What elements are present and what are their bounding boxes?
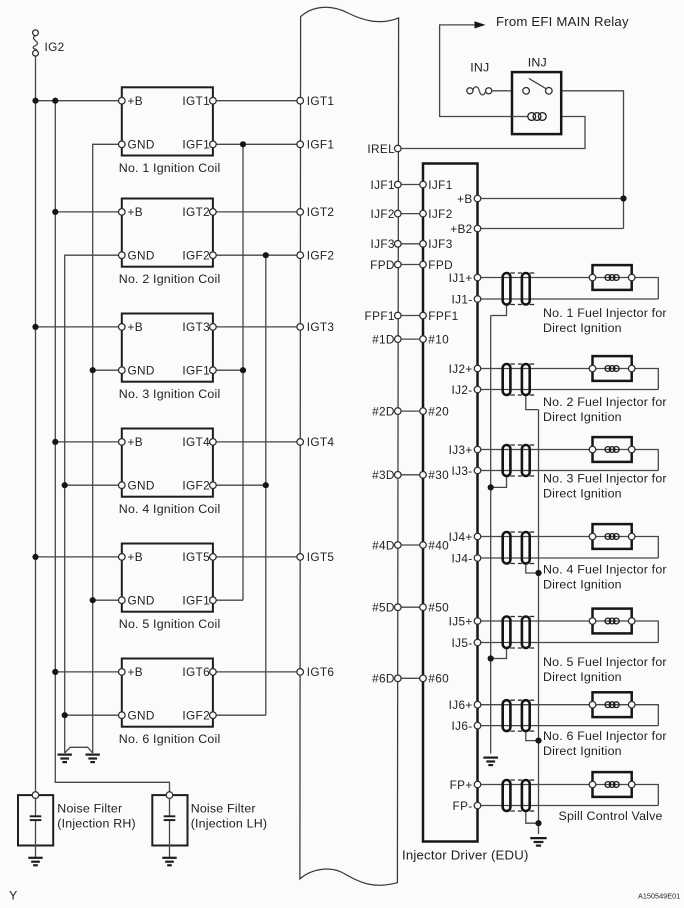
wire IGF2 from No.2 coil [213,254,300,256]
shield stadium left ch3 [503,445,511,476]
shield stadium right ch6 [522,700,530,731]
pin IGF2 coil 6 [210,712,217,719]
svg-text:IJ5-: IJ5- [452,636,473,650]
noise filter (RH) internal wire [35,798,37,816]
shield drain ch2 [526,395,539,410]
pin IJ6+ on EDU [474,701,481,708]
junction IGF2/coil2 [263,252,269,258]
svg-text:No. 1 Ignition Coil: No. 1 Ignition Coil [119,161,221,175]
svg-text:No. 2 Fuel Injector for: No. 2 Fuel Injector for [543,395,667,409]
wire GND bus coils 2/4/6 [65,255,122,753]
svg-text:Noise Filter: Noise Filter [57,802,122,816]
ignition coil box No.6 [122,659,213,727]
pin +B2 on EDU [474,225,481,232]
svg-text:IGT5: IGT5 [307,550,335,564]
svg-text:GND: GND [128,594,155,608]
ground shield drain left [483,758,498,766]
svg-text:IJ2-: IJ2- [452,383,473,397]
ground for coils (left) [58,755,72,763]
wire injector out loop [632,278,659,300]
label No. 1 Fuel Injector for Direct Ignition [543,306,667,335]
junction drain ch4 [535,570,541,576]
shield stadium right ch5 [522,617,530,649]
svg-text:+B: +B [457,192,472,206]
wire +B feed vertical 2 [55,101,169,795]
ground shield drain right [530,838,546,846]
svg-text:IGT4: IGT4 [307,435,335,449]
svg-text:IG2: IG2 [45,40,65,54]
svg-text:Direct Ignition: Direct Ignition [543,410,622,424]
svg-text:+B: +B [128,94,143,108]
svg-text:#20: #20 [428,404,449,418]
svg-text:IREL: IREL [367,142,395,156]
wire GND branch coil 4 [65,484,122,486]
wire relay switch to +B bus [549,91,624,229]
svg-text:#40: #40 [428,538,449,552]
pin +B coil 4 [119,439,126,446]
pin GND coil 4 [119,482,126,489]
pin #20 on EDU [420,408,427,415]
ground noise filter (RH) [28,858,42,866]
junction +B / relay bus [620,195,626,201]
ignition coil box No.5 [122,544,213,612]
node IREL on ECM band [395,145,402,152]
pin IJ3- on EDU [474,467,481,474]
pin IGT5 coil [210,554,217,561]
svg-text:#2D: #2D [372,404,395,418]
svg-text:FPF1: FPF1 [365,309,395,323]
svg-text:IJF1: IJF1 [370,178,394,192]
svg-text:No. 4 Fuel Injector for: No. 4 Fuel Injector for [543,562,667,576]
shield dashes ch2 [510,364,534,395]
svg-text:Y: Y [9,889,17,903]
svg-text:+B: +B [128,665,143,679]
wire +B feed to No.2 coil [55,211,122,213]
pin IJ1+ on EDU [474,274,481,281]
wire injector out loop [632,450,659,471]
svg-text:IGT6: IGT6 [307,665,335,679]
connector IG2 symbol [33,30,39,56]
svg-text:GND: GND [128,364,155,378]
pin IGT3 coil [210,324,217,331]
pin +B coil 5 [119,554,126,561]
svg-text:+B: +B [128,550,143,564]
junction feed/coil1 a [32,98,38,104]
pin IJF3 on EDU [420,241,427,248]
ECM harness band (vertical bus) [300,7,399,885]
wire IGT3 to ECM [213,326,300,328]
wire IJ2- return [478,389,659,391]
svg-text:#10: #10 [428,332,449,346]
svg-text:IJ4-: IJ4- [452,551,473,565]
pin FPF1 on EDU [420,312,427,319]
shield dashes ch3 [510,445,534,476]
shield stadium left ch4 [503,532,511,564]
svg-text:#30: #30 [428,468,449,482]
wire #3D band to EDU [398,474,423,476]
load terminals ch5 [589,618,635,625]
svg-text:IGT1: IGT1 [182,94,210,108]
coil in load ch3 [605,447,619,453]
pin GND coil 2 [119,252,126,259]
wire IGT4 to ECM [213,441,300,443]
pin FP+ on EDU [474,781,481,788]
junction drain ch7 [535,820,541,826]
wire IJ1- return [478,298,659,300]
svg-text:IGT2: IGT2 [182,205,210,219]
pin #10 on EDU [420,336,427,343]
svg-text:No. 6 Fuel Injector for: No. 6 Fuel Injector for [543,729,667,743]
svg-text:FPF1: FPF1 [428,309,458,323]
wire fuse to relay switch [492,90,526,92]
wire IGF1 from No.5 coil [213,599,243,601]
wire injector out loop [632,537,659,559]
wire #4D band to EDU [398,544,423,546]
svg-text:Direct Ignition: Direct Ignition [543,744,622,758]
node FPF1 on ECM band [395,312,402,319]
pin IJ4- on EDU [474,555,481,562]
load box ch7 [593,772,632,797]
svg-text:IGF2: IGF2 [182,479,210,493]
pin #40 on EDU [420,542,427,549]
wire relay coil to IREL [398,117,585,149]
wire IGF2 from No.6 coil [213,714,266,716]
wire From EFI MAIN Relay with arrow [440,21,512,116]
svg-text:+B: +B [128,320,143,334]
svg-text:IJF3: IJF3 [370,237,394,251]
wire FP+ to injector [478,784,593,786]
svg-text:IJ3+: IJ3+ [449,443,473,457]
pin IJ2+ on EDU [474,365,481,372]
pin IJ2- on EDU [474,386,481,393]
svg-text:IGF2: IGF2 [182,709,210,723]
svg-text:No. 2 Ignition Coil: No. 2 Ignition Coil [119,272,221,286]
pin IJ6- on EDU [474,722,481,729]
svg-text:Noise Filter: Noise Filter [191,802,256,816]
wire IJF2 band to EDU [398,213,423,215]
pin IJ4+ on EDU [474,533,481,540]
svg-text:IGF1: IGF1 [182,138,210,152]
shield stadium right ch4 [522,532,530,564]
shield stadium left ch5 [503,617,511,649]
wire shield drain bus right [538,410,540,834]
wire IJ5+ to injector [478,620,593,622]
svg-text:+B2: +B2 [450,222,472,236]
load lead ch3 [593,449,632,451]
wire GND branch coil 6 [65,714,122,716]
load terminals ch3 [589,446,635,453]
wire IJ4- return [478,557,659,559]
shield drain ch1 [491,305,507,316]
load box ch3 [593,437,632,462]
svg-text:GND: GND [128,479,155,493]
wire FPD band to EDU [398,264,423,266]
node IGT5 on ECM band [297,554,304,561]
capacitor in noise filter (RH) [30,816,42,820]
wire #5D band to EDU [398,606,423,608]
pin GND coil 1 [119,141,126,148]
label No. 6 Fuel Injector for Direct Ignition [543,729,667,758]
svg-text:IGT3: IGT3 [307,320,335,334]
svg-text:Spill Control Valve: Spill Control Valve [559,809,663,823]
shield stadium left ch7 [503,780,511,811]
pin IJF1 on EDU [420,181,427,188]
svg-text:Direct Ignition: Direct Ignition [543,670,622,684]
wire GND bus coils 1/3/5 [93,144,122,753]
pin #50 on EDU [420,604,427,611]
svg-text:IGF2: IGF2 [307,249,335,263]
svg-text:No. 5 Fuel Injector for: No. 5 Fuel Injector for [543,655,667,669]
wire IJ5- return [478,642,659,644]
label Noise Filter RH [57,802,136,831]
shield stadium left ch6 [503,700,511,731]
load box ch5 [593,609,632,634]
shield dashes ch1 [510,273,534,305]
label No. 2 Fuel Injector for Direct Ignition [543,395,667,424]
wire +B to relay bus [478,198,624,200]
node IGT1 on ECM band [297,97,304,104]
load lead ch7 [593,784,632,786]
junction feed/coil6 [52,669,58,675]
wire FP- return [478,805,659,807]
pin IGT6 coil [210,669,217,676]
shield drain ch3 [491,476,507,487]
load box ch1 [593,265,632,290]
pin FP- on EDU [474,802,481,809]
wire IGF2 bus vertical [265,255,267,715]
coil in load ch5 [605,618,619,624]
pin IGF1 coil 3 [210,367,217,374]
wire +B2 to relay bus [478,228,624,230]
shield dashes ch5 [510,617,534,649]
wire IJ4+ to injector [478,536,593,538]
shield stadium right ch7 [522,780,530,811]
svg-text:#4D: #4D [372,538,395,552]
capacitor in noise filter (LH) [164,816,176,820]
pin +B on EDU [474,195,481,202]
svg-text:Injector Driver (EDU): Injector Driver (EDU) [402,847,529,862]
svg-text:GND: GND [128,709,155,723]
label Noise Filter LH [191,802,267,831]
shield stadium left ch1 [503,273,511,305]
wire +B feed to No.5 coil [36,556,122,558]
pin +B coil 6 [119,669,126,676]
svg-text:IJF2: IJF2 [370,207,394,221]
pin FPD on EDU [420,261,427,268]
junction GND/coil5 [90,597,96,603]
shield dashes ch7 [510,780,534,811]
junction GND/coil4 [62,482,68,488]
load terminals ch4 [589,533,635,540]
noise filter (LH) internal wire [169,798,171,816]
relay coil [512,116,528,118]
load terminals ch7 [589,781,635,788]
node IGF1 on ECM band [297,141,304,148]
node #3D on ECM band [395,472,402,479]
coil in load ch2 [605,366,619,372]
node #6D on ECM band [395,675,402,682]
svg-text:Direct Ignition: Direct Ignition [543,577,622,591]
junction GND/coil3 [90,367,96,373]
ignition coil box No.2 [122,199,213,267]
wire IGT2 to ECM [213,211,300,213]
wire injector out loop [632,621,659,643]
wire ground bridge [65,747,93,753]
pin IGF1 coil 1 [210,141,217,148]
wire IG2 feed vertical [35,56,37,795]
node #1D on ECM band [395,336,402,343]
pin #60 on EDU [420,675,427,682]
svg-text:#1D: #1D [372,332,395,346]
svg-text:#60: #60 [428,672,449,686]
wire IGT6 to ECM [213,671,300,673]
shield dashes ch6 [510,700,534,731]
svg-text:(Injection RH): (Injection RH) [57,816,136,830]
pin GND coil 5 [119,597,126,604]
svg-text:Direct Ignition: Direct Ignition [543,486,622,500]
junction IGF2/coil4 [263,482,269,488]
pin IJF2 on EDU [420,210,427,217]
wire IGF1 bus vertical [242,144,244,600]
svg-text:No. 1 Fuel Injector for: No. 1 Fuel Injector for [543,306,667,320]
svg-text:IJF2: IJF2 [428,207,452,221]
svg-text:FPD: FPD [370,258,395,272]
svg-text:INJ: INJ [470,60,489,74]
svg-text:#3D: #3D [372,468,395,482]
junction drain ch3 [488,484,494,490]
ground for coils (right) [86,755,100,763]
shield drain ch6 [526,731,539,741]
shield stadium right ch1 [522,273,530,305]
ignition coil box No.4 [122,429,213,497]
coil in load ch1 [605,275,619,281]
svg-text:IJ5+: IJ5+ [449,614,473,628]
relay switch contacts [523,78,552,94]
shield drain ch5 [491,648,507,659]
shield stadium left ch2 [503,364,511,395]
wire IJ6+ to injector [478,704,593,706]
pin IGF2 coil 4 [210,482,217,489]
svg-text:IGF1: IGF1 [182,364,210,378]
node IGT4 on ECM band [297,439,304,446]
wire FPF1 band to EDU [398,315,423,317]
Injector Driver EDU box [423,164,478,842]
svg-text:IGF1: IGF1 [182,594,210,608]
wire injector out loop [632,705,659,726]
load box ch2 [593,356,632,381]
wire IGF2 from No.4 coil [213,484,266,486]
shield stadium right ch2 [522,364,530,395]
wire IGT1 to ECM [213,100,300,102]
junction feed/coil4 [52,439,58,445]
pin IJ1- on EDU [474,296,481,303]
svg-text:No. 3 Ignition Coil: No. 3 Ignition Coil [119,387,221,401]
coil in load ch7 [605,782,619,788]
pin +B coil 1 [119,97,126,104]
shield dashes ch4 [510,532,534,564]
junction feed/coil5 [32,554,38,560]
load box ch6 [593,692,632,717]
load lead ch4 [593,536,632,538]
wire IJF3 band to EDU [398,243,423,245]
ignition coil box No.1 [122,87,213,155]
label No. 5 Fuel Injector for Direct Ignition [543,655,667,684]
svg-text:#6D: #6D [372,672,395,686]
wire GND branch coil 3 [93,369,122,371]
load terminals ch2 [589,365,635,372]
svg-text:IJ1-: IJ1- [452,292,473,306]
svg-text:IJ6+: IJ6+ [449,698,473,712]
svg-text:IGT3: IGT3 [182,320,210,334]
pin IJ5+ on EDU [474,618,481,625]
shield drain ch4 [526,564,539,574]
wire +B feed to No.1 coil [36,100,122,102]
svg-text:FPD: FPD [428,258,453,272]
relay INJ box [512,72,561,134]
svg-text:+B: +B [128,205,143,219]
wire #2D band to EDU [398,410,423,412]
load lead ch2 [593,368,632,370]
node IJF2 on ECM band [395,210,402,217]
svg-text:FP+: FP+ [450,778,473,792]
shield drain ch7 [526,811,539,823]
wire +B feed to No.6 coil [55,671,122,673]
node IGT2 on ECM band [297,209,304,216]
node IGT6 on ECM band [297,669,304,676]
svg-text:IJ6-: IJ6- [452,719,473,733]
junction feed/coil2 [52,209,58,215]
svg-text:A150549E01: A150549E01 [638,892,680,901]
wire injector out loop [632,785,659,806]
svg-text:#5D: #5D [372,601,395,615]
wire +B feed to No.3 coil [36,326,122,328]
node #5D on ECM band [395,604,402,611]
pin noise filter (RH) [32,792,39,799]
junction IGF1/coil1 [240,141,246,147]
pin IGF1 coil 5 [210,597,217,604]
wire IJ3+ to injector [478,449,593,451]
node FPD on ECM band [395,261,402,268]
coil in load ch6 [605,702,619,708]
load lead ch1 [593,277,632,279]
junction feed/coil3 [32,324,38,330]
wire +B feed to No.4 coil [55,441,122,443]
svg-text:No. 5 Ignition Coil: No. 5 Ignition Coil [119,617,221,631]
svg-text:+B: +B [128,435,143,449]
shield stadium right ch3 [522,445,530,476]
wire IJ6- return [478,725,659,727]
junction drain ch5 [488,655,494,661]
svg-text:IJ2+: IJ2+ [449,362,473,376]
load lead ch6 [593,704,632,706]
wire IGF1 from No.3 coil [213,369,243,371]
pin IGT1 coil [210,97,217,104]
node IJF1 on ECM band [395,181,402,188]
pin IGT2 coil [210,209,217,216]
node IGT3 on ECM band [297,324,304,331]
wire #6D band to EDU [398,677,423,679]
noise filter (RH) box [18,795,53,845]
label No. 4 Fuel Injector for Direct Ignition [543,562,667,591]
junction IGF1/coil3 [240,367,246,373]
node IGF2 on ECM band [297,252,304,259]
wire IGF1 from No.1 coil [213,143,300,145]
svg-text:GND: GND [128,249,155,263]
svg-text:Direct Ignition: Direct Ignition [543,321,622,335]
svg-text:IGF2: IGF2 [182,249,210,263]
pin noise filter (LH) [166,792,173,799]
pin IJ5- on EDU [474,639,481,646]
